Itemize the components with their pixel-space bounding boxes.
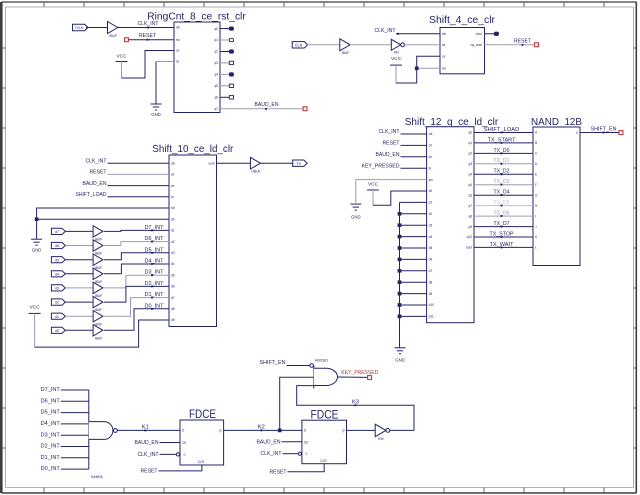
component U12 FDCE — [298, 409, 346, 463]
net TX_D2 wire U8.q4 to U9.E — [474, 169, 533, 175]
svg-text:IBUF: IBUF — [95, 336, 103, 340]
power VCC (B) — [390, 56, 402, 65]
svg-text:CLK_INT: CLK_INT — [379, 129, 401, 135]
wire VCC to U8.d0 — [373, 190, 427, 205]
svg-text:CLK_INT: CLK_INT — [86, 159, 108, 165]
net RESET stub to U6.clr — [90, 170, 170, 176]
wire d1 to IBUF — [65, 315, 93, 317]
svg-text:B: B — [535, 141, 537, 145]
wire d5 to IBUF — [65, 259, 93, 261]
svg-text:D1_INT: D1_INT — [145, 292, 165, 298]
net BAUD_EN wire from U1.q7 — [220, 102, 303, 110]
net BAUD_EN stub into U8 — [376, 152, 427, 158]
svg-text:AND3B1: AND3B1 — [315, 358, 328, 362]
svg-text:D7_INT: D7_INT — [41, 387, 61, 393]
svg-text:L: L — [535, 246, 537, 250]
svg-text:Shift_10_ce_ld_clr: Shift_10_ce_ld_clr — [152, 143, 233, 155]
svg-text:VCC: VCC — [391, 56, 402, 61]
ground GND (A) — [151, 104, 162, 117]
net TX_D7 wire U8.q9 to U9.J — [474, 221, 533, 227]
pin U1.q1 stub and open terminal — [220, 38, 234, 41]
svg-text:d7: d7 — [55, 230, 59, 234]
pin U1.q6 stub and open terminal — [220, 96, 234, 99]
net SHIFT_EN wire into U14 inverted input — [260, 360, 310, 366]
net SHIFT_LOAD wire U8.q0 to U9.A — [474, 127, 533, 133]
svg-text:sin: sin — [442, 67, 446, 71]
svg-text:D0_INT: D0_INT — [145, 303, 165, 309]
svg-text:d0: d0 — [171, 217, 175, 221]
svg-text:SHIFT_EN: SHIFT_EN — [260, 360, 286, 366]
input port d5 — [51, 257, 65, 263]
svg-text:d0: d0 — [55, 329, 59, 333]
svg-text:d10: d10 — [429, 303, 435, 307]
svg-text:q5: q5 — [468, 183, 472, 187]
terminal RESET (output) — [535, 43, 539, 47]
svg-text:q0: q0 — [468, 131, 472, 135]
net CLK_INT stub to U12.C — [261, 451, 298, 457]
wire VCC to U1.ce — [122, 51, 175, 79]
svg-text:GND: GND — [32, 248, 42, 253]
svg-text:d4: d4 — [429, 235, 433, 239]
svg-text:D1_INT: D1_INT — [41, 455, 61, 461]
wire GND to U8.sin — [356, 180, 427, 205]
svg-text:d1: d1 — [55, 315, 59, 319]
svg-text:q1: q1 — [214, 38, 218, 42]
net labels D7_INT-D0_INT into NAND8 — [41, 387, 89, 472]
net TX_D3 wire U8.q5 to U9.F — [474, 179, 533, 185]
wire d7 to IBUF — [65, 230, 93, 232]
svg-text:ce: ce — [429, 155, 433, 159]
svg-text:NAND8: NAND8 — [91, 475, 103, 479]
net TX_WAIT wire U8.sout to U9.L — [474, 242, 533, 248]
input port d7 — [51, 228, 65, 234]
svg-text:d0: d0 — [429, 189, 433, 193]
svg-text:q0: q0 — [214, 27, 218, 31]
wire K2 up to gate U14 input — [280, 377, 314, 430]
svg-text:GND: GND — [395, 357, 405, 362]
svg-text:GND: GND — [351, 215, 361, 220]
junction at U8.d8 — [398, 281, 401, 284]
svg-text:CLK_INT: CLK_INT — [138, 21, 160, 27]
buffer IBUF d0 — [93, 325, 103, 341]
svg-text:clk: clk — [442, 32, 446, 36]
gate U10 NAND8 — [89, 390, 118, 479]
svg-text:GND: GND — [151, 112, 161, 117]
buffer IBUF d1 — [93, 311, 103, 327]
junction at U8.d5 — [398, 246, 401, 249]
net CLK_INT stub to U11.C — [138, 452, 177, 458]
buffer IBUF (U2) — [108, 22, 118, 38]
input port d2 — [51, 299, 65, 305]
net D6_INT wire IBUF to U6.d2 — [104, 236, 169, 245]
wire CLR to IBUF — [306, 44, 340, 46]
junction at U8.d10 — [398, 303, 401, 306]
net D2_INT wire IBUF to U6.d6 — [104, 281, 169, 302]
wire d6 to IBUF — [65, 245, 93, 247]
svg-text:CLR: CLR — [295, 43, 303, 47]
wire d2 to IBUF — [65, 301, 93, 303]
ground GND (D1) — [350, 204, 361, 219]
svg-text:OBUF: OBUF — [251, 169, 260, 173]
wire VCC to U3.ce and U3.sin — [396, 56, 440, 83]
wire INV to U3.clr — [403, 44, 440, 46]
buffer IBUF d4 — [93, 268, 103, 284]
net CLK_INT stub to U3.clk — [375, 28, 441, 34]
svg-text:BAUD_EN: BAUD_EN — [83, 181, 107, 187]
svg-text:BAUD_EN: BAUD_EN — [257, 440, 281, 446]
svg-text:RESET: RESET — [90, 170, 108, 176]
net RESET wire to U11.CLR — [141, 465, 202, 475]
net TX_D4 wire U8.q6 to U9.G — [474, 190, 533, 196]
svg-text:ld: ld — [429, 166, 432, 170]
svg-text:d5: d5 — [55, 258, 59, 262]
wire d4 to IBUF — [65, 273, 93, 275]
svg-text:q6: q6 — [214, 96, 218, 100]
svg-text:ce: ce — [442, 54, 446, 58]
svg-text:sin: sin — [429, 178, 433, 182]
svg-text:d8: d8 — [429, 280, 433, 284]
svg-text:BAUD_EN: BAUD_EN — [255, 102, 279, 108]
svg-text:KEY_PRESSED: KEY_PRESSED — [362, 163, 400, 169]
svg-text:d3: d3 — [55, 287, 59, 291]
svg-text:IBUF: IBUF — [109, 34, 117, 38]
svg-text:RESET: RESET — [514, 38, 532, 44]
svg-text:d7: d7 — [171, 296, 175, 300]
svg-text:d1: d1 — [171, 229, 175, 233]
svg-text:sout: sout — [476, 32, 482, 36]
net TX_D6 wire U8.q8 to U9.I — [474, 211, 533, 217]
pin U3.sout stub terminal — [485, 32, 499, 35]
wire GND to U1.clr — [156, 62, 174, 105]
svg-text:NAND_12B: NAND_12B — [531, 116, 582, 128]
pin U1.q2 stub and open terminal — [220, 50, 234, 53]
svg-text:d9: d9 — [429, 292, 433, 296]
net RESET wire from U3.nq_sout — [485, 38, 535, 45]
component U9 NAND_12B — [531, 116, 582, 266]
svg-text:d5: d5 — [429, 246, 433, 250]
svg-text:TCLK: TCLK — [75, 26, 84, 30]
buffer IBUF d3 — [93, 282, 103, 298]
wire GND to U6.sin and U6.d0 — [37, 208, 169, 239]
svg-text:INV: INV — [394, 51, 400, 55]
svg-text:q7: q7 — [468, 204, 472, 208]
svg-text:clk: clk — [176, 26, 180, 30]
svg-text:sout: sout — [466, 246, 472, 250]
wire VCC to U6.d9 — [35, 313, 169, 347]
svg-text:q4: q4 — [214, 73, 218, 77]
net TX_STOP wire U8.q10 to U9.K — [474, 231, 533, 237]
svg-text:ce: ce — [171, 184, 175, 188]
input port CLR — [292, 42, 308, 48]
net BAUD_EN stub to U12.CE — [257, 440, 302, 446]
svg-text:q1: q1 — [468, 141, 472, 145]
svg-text:E: E — [535, 173, 537, 177]
wire OBUF to TX port — [260, 162, 292, 164]
pin U1.q3 stub and open terminal — [220, 61, 234, 64]
pin U1.q0 stub and open terminal — [220, 27, 234, 30]
svg-text:d4: d4 — [171, 262, 175, 266]
svg-text:D5_INT: D5_INT — [41, 410, 61, 416]
svg-text:FDCE: FDCE — [311, 409, 339, 421]
junction at U8.d6 — [398, 258, 401, 261]
svg-text:IBUF: IBUF — [342, 51, 350, 55]
junction at U8.d11 — [398, 315, 401, 318]
net TX_D5 wire U8.q7 to U9.H — [474, 200, 533, 206]
buffer IBUF d7 — [93, 226, 103, 242]
svg-text:VCC: VCC — [117, 54, 128, 59]
svg-text:sin: sin — [171, 206, 175, 210]
svg-text:q2: q2 — [214, 50, 218, 54]
component U8 Shift_12_q_ce_ld_clr — [405, 116, 499, 323]
svg-text:clk: clk — [429, 132, 433, 136]
svg-text:q8: q8 — [468, 214, 472, 218]
svg-text:d5: d5 — [171, 273, 175, 277]
svg-text:RESET: RESET — [383, 141, 401, 147]
pin U1.q4 stub and open terminal — [220, 73, 234, 76]
svg-text:q4: q4 — [468, 173, 472, 177]
svg-text:clk: clk — [171, 161, 175, 165]
svg-text:CE: CE — [182, 441, 186, 445]
component U11 FDCE — [176, 409, 223, 465]
svg-text:q3: q3 — [468, 162, 472, 166]
svg-text:VCC: VCC — [368, 181, 379, 186]
pin U1.q5 stub and open terminal — [220, 84, 234, 87]
svg-text:CLK_INT: CLK_INT — [375, 28, 397, 34]
net D7_INT wire IBUF to U6.d1 — [104, 225, 169, 232]
svg-text:D3_INT: D3_INT — [145, 270, 165, 276]
net CLK_INT stub to U6.clk — [86, 159, 170, 165]
svg-text:q2: q2 — [468, 152, 472, 156]
svg-text:D4_INT: D4_INT — [41, 421, 61, 427]
svg-text:D7_INT: D7_INT — [145, 225, 165, 231]
buffer IBUF d6 — [93, 240, 103, 256]
svg-text:CLK_INT: CLK_INT — [138, 452, 160, 458]
terminal RESET (input) — [125, 38, 129, 42]
net KEY_PRESSED stub into U8 — [362, 163, 427, 169]
wire d0 to IBUF — [65, 329, 93, 331]
output port TX — [293, 160, 308, 166]
wire d3 to IBUF — [65, 287, 93, 289]
net D5_INT wire IBUF to U6.d3 — [104, 247, 169, 259]
junction at U8.d9 — [398, 292, 401, 295]
svg-text:d6: d6 — [55, 244, 59, 248]
svg-text:rst: rst — [176, 38, 180, 42]
svg-text:D6_INT: D6_INT — [145, 236, 165, 242]
svg-text:d1: d1 — [429, 201, 433, 205]
net RESET wire to U1.rst — [129, 33, 174, 40]
svg-text:CLR: CLR — [198, 460, 205, 464]
net SHIFT_EN wire from U9.X — [580, 127, 619, 134]
svg-text:sout: sout — [208, 161, 214, 165]
wire U6.sout to OBUF — [217, 162, 251, 164]
power VCC (C) — [29, 305, 41, 314]
net TX_D1 wire U8.q3 to U9.D — [474, 158, 533, 164]
input port d0 — [51, 327, 65, 333]
input port d3 — [51, 285, 65, 291]
input port d4 — [51, 271, 65, 277]
svg-text:q10: q10 — [467, 235, 473, 239]
junction GND net at d0 — [35, 218, 38, 221]
component U6 Shift_10_ce_ld_clr — [152, 143, 233, 326]
input port d6 — [51, 242, 65, 248]
svg-text:D6_INT: D6_INT — [41, 398, 61, 404]
wire U12.Q to INV — [347, 429, 376, 431]
ground GND (D2) — [395, 348, 406, 363]
svg-text:d2: d2 — [171, 240, 175, 244]
net K3 wire INV to gate U14 — [297, 386, 414, 431]
svg-text:q9: q9 — [468, 225, 472, 229]
net D3_INT wire IBUF to U6.d5 — [104, 270, 169, 288]
svg-text:RESET: RESET — [139, 33, 157, 39]
svg-text:d6: d6 — [171, 285, 175, 289]
buffer IBUF (U4) — [340, 39, 350, 55]
svg-text:CE: CE — [304, 440, 308, 444]
wire IBUF to INV — [350, 44, 391, 46]
svg-text:FDCE: FDCE — [189, 409, 216, 421]
junction K2 — [278, 429, 281, 432]
svg-text:q5: q5 — [214, 84, 218, 88]
svg-text:RESET: RESET — [141, 469, 159, 475]
svg-text:KEY_PRESSED: KEY_PRESSED — [341, 370, 378, 376]
svg-text:ce: ce — [176, 49, 180, 53]
svg-text:D2_INT: D2_INT — [41, 444, 61, 450]
buffer OBUF (U7) — [250, 157, 260, 173]
svg-text:INV: INV — [378, 437, 384, 441]
svg-text:d9: d9 — [171, 318, 175, 322]
net CLK_INT stub into U8 — [379, 129, 427, 135]
ground bus wire to U8.d1-d11 — [400, 202, 427, 347]
ground GND (C) — [31, 239, 42, 252]
terminal KEY_PRESSED (output) — [368, 376, 372, 380]
net D0_INT wire IBUF to U6.d8 — [104, 303, 169, 330]
svg-text:Shift_4_ce_clr: Shift_4_ce_clr — [429, 14, 495, 26]
svg-text:ld: ld — [171, 195, 174, 199]
component U1 RingCnt_8_ce_rst_clr — [147, 11, 246, 113]
svg-text:CLK_INT: CLK_INT — [261, 451, 283, 457]
junction at U8.d4 — [398, 235, 401, 238]
wire CLK to IBUF — [86, 27, 108, 29]
svg-text:D4_INT: D4_INT — [145, 259, 165, 265]
svg-text:VCC: VCC — [30, 305, 41, 310]
net TX_D0 wire U8.q2 to U9.C — [474, 148, 533, 154]
terminal SHIFT_EN (output) — [619, 131, 623, 135]
svg-text:RingCnt_8_ce_rst_clr: RingCnt_8_ce_rst_clr — [147, 11, 246, 23]
svg-text:d7: d7 — [429, 269, 433, 273]
svg-text:BAUD_EN: BAUD_EN — [135, 440, 159, 446]
svg-text:q3: q3 — [214, 61, 218, 65]
net K1 wire NAND8 to U11.D — [117, 424, 180, 431]
net RESET wire to U12.CLR — [270, 464, 325, 476]
svg-text:d4: d4 — [55, 272, 59, 276]
junction at U8.d3 — [398, 224, 401, 227]
net D4_INT wire IBUF to U6.d4 — [104, 259, 169, 274]
svg-text:d2: d2 — [55, 301, 59, 305]
net D1_INT wire IBUF to U6.d7 — [104, 292, 169, 316]
buffer IBUF d5 — [93, 254, 103, 270]
svg-text:BAUD_EN: BAUD_EN — [376, 152, 400, 158]
svg-text:TX: TX — [296, 162, 301, 166]
net BAUD_EN stub to U6.ce — [83, 181, 170, 187]
buffer IBUF d2 — [93, 296, 103, 312]
input port d1 — [51, 313, 65, 319]
svg-text:D3_INT: D3_INT — [41, 432, 61, 438]
svg-text:RESET: RESET — [270, 470, 288, 476]
net SHIFT_LOAD stub to U6.ld — [76, 192, 170, 198]
svg-text:d8: d8 — [171, 307, 175, 311]
svg-text:I: I — [535, 214, 536, 218]
svg-text:d11: d11 — [429, 315, 434, 319]
svg-text:D0_INT: D0_INT — [41, 466, 61, 472]
svg-text:D5_INT: D5_INT — [145, 247, 165, 253]
svg-text:d6: d6 — [429, 258, 433, 262]
net K2 wire U11.Q to U12.D — [224, 425, 302, 432]
net KEY_PRESSED wire from U14 — [338, 370, 379, 377]
power VCC (A) — [116, 54, 128, 62]
net BAUD_EN stub to U11.CE — [135, 440, 181, 446]
junction at U8.d2 — [398, 212, 401, 215]
inverter INV (U13) — [375, 424, 389, 441]
svg-text:F: F — [535, 183, 537, 187]
svg-text:D2_INT: D2_INT — [145, 281, 165, 287]
inverter INV (U5) — [391, 39, 404, 54]
terminal BAUD_EN (output) — [303, 107, 307, 111]
net CLK_INT wire IBUF to U1.clk — [118, 21, 174, 28]
svg-text:SHIFT_LOAD: SHIFT_LOAD — [76, 192, 107, 198]
power VCC (D) — [367, 181, 379, 190]
svg-text:q7: q7 — [214, 107, 218, 111]
gate U14 AND3B1 — [310, 358, 338, 388]
svg-text:d3: d3 — [429, 223, 433, 227]
svg-text:CLR: CLR — [320, 459, 327, 463]
net TX_START wire U8.q1 to U9.B — [474, 137, 533, 143]
svg-text:nq_sout: nq_sout — [471, 43, 482, 47]
component U3 Shift_4_ce_clr — [429, 14, 495, 74]
input port CLK — [73, 24, 89, 30]
svg-text:d3: d3 — [171, 251, 175, 255]
net RESET stub into U8 — [383, 141, 427, 147]
junction on VCC net — [415, 67, 418, 70]
svg-text:d2: d2 — [429, 212, 433, 216]
svg-text:q6: q6 — [468, 193, 472, 197]
junction at U8.d7 — [398, 269, 401, 272]
